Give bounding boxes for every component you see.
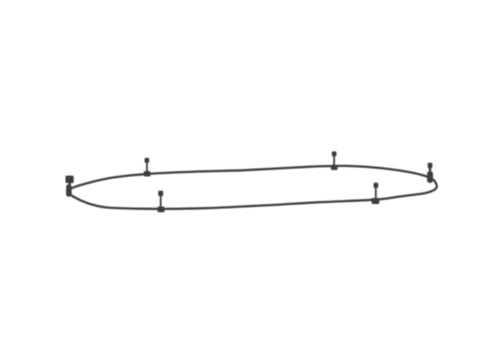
right connector neck bbox=[429, 168, 431, 173]
clip clamp 4 bbox=[372, 198, 380, 204]
clip post 2 (bottom-left) bbox=[160, 194, 162, 208]
clip post 4 (bottom-right) bbox=[375, 186, 377, 200]
clip post 3 (top-right) bbox=[333, 154, 335, 166]
right connector cap bbox=[428, 163, 433, 168]
clip knob 4 bbox=[374, 183, 379, 188]
clip knob 2 bbox=[158, 191, 163, 196]
clip post 1 (top-left) bbox=[146, 161, 148, 173]
clip clamp 2 bbox=[158, 207, 165, 213]
clip knob 3 bbox=[332, 151, 337, 156]
left connector neck bbox=[69, 182, 71, 186]
right connector cylinder bbox=[427, 171, 433, 183]
left connector cylinder bbox=[66, 184, 72, 197]
clip clamp 1 bbox=[144, 171, 151, 176]
clip clamp 3 bbox=[331, 165, 338, 170]
wire oval track rail bbox=[69, 166, 437, 209]
left connector box bbox=[66, 176, 74, 183]
clip knob 1 bbox=[145, 158, 150, 163]
